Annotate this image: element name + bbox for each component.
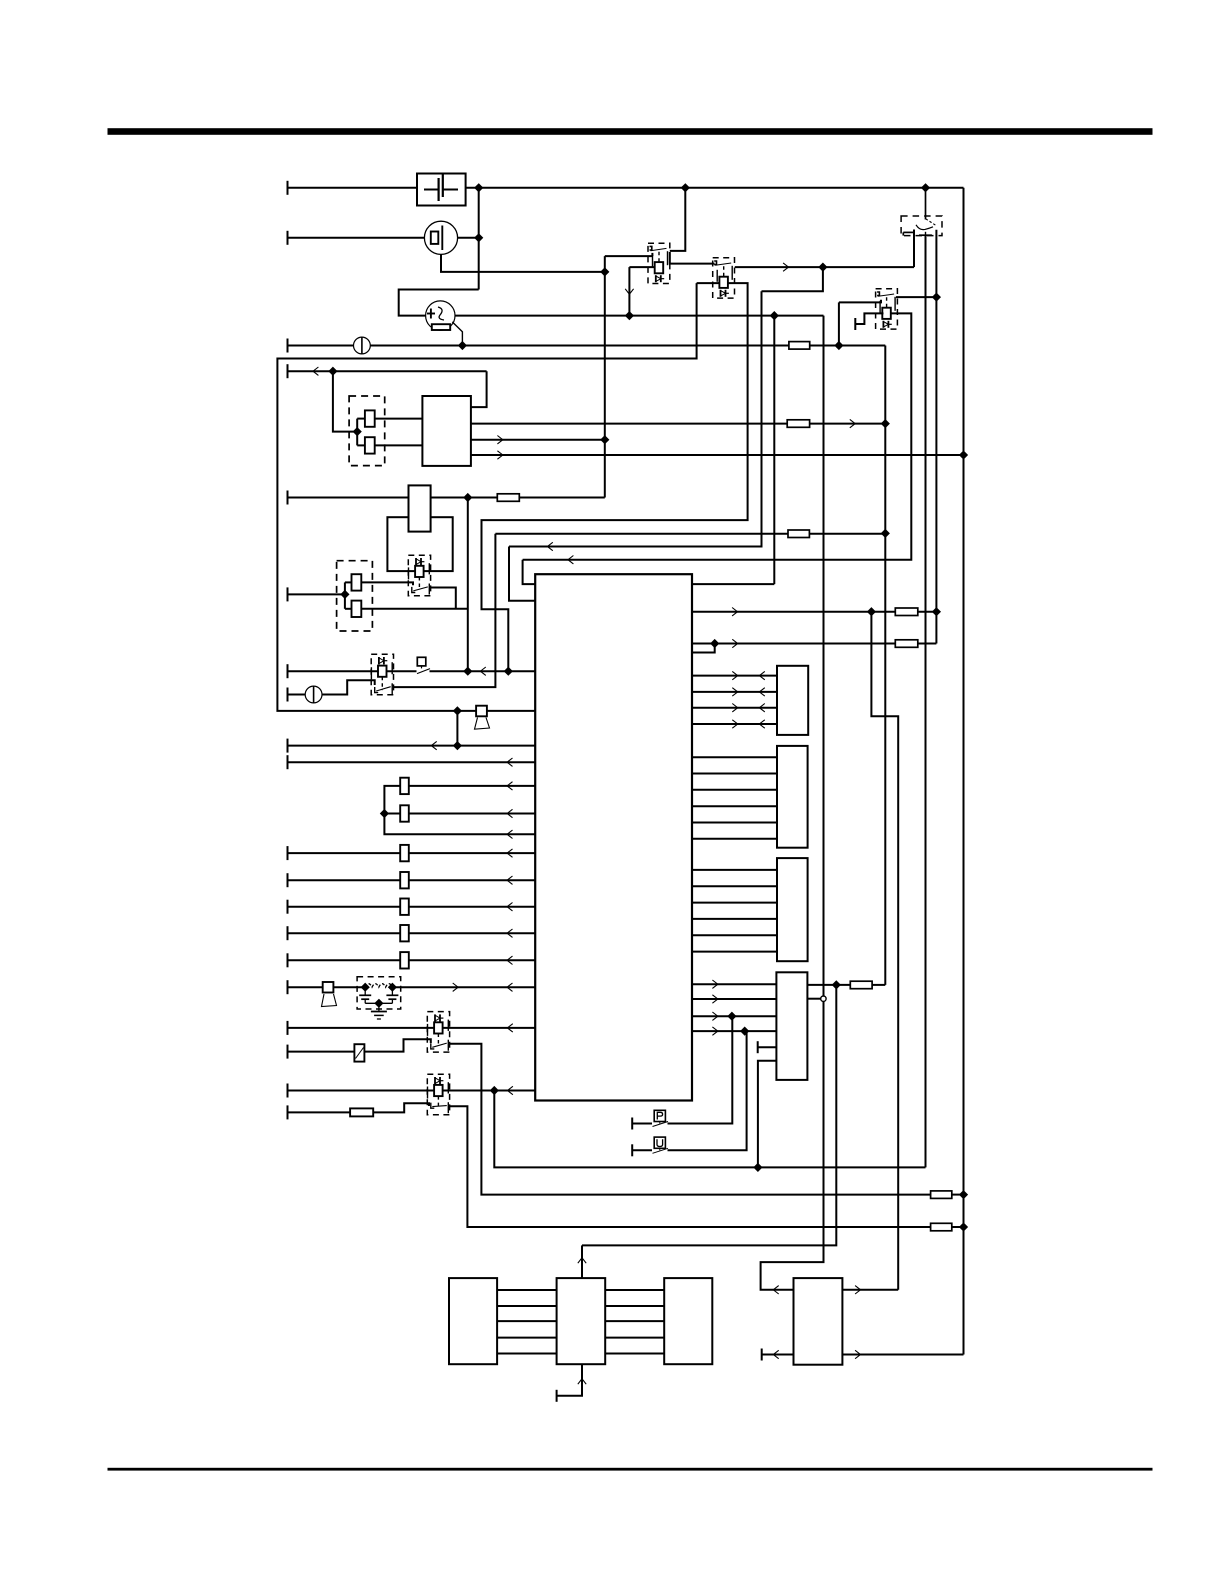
wire [409,932,535,934]
wire (K7 contact out) [449,1106,931,1227]
node J11 [881,530,889,538]
wire [288,593,345,595]
wire [605,1337,664,1339]
node J33 [741,1027,749,1035]
resistor R8 [400,872,409,888]
node T3 terminal [287,339,289,353]
node J35 [832,981,840,989]
node J19 [504,667,512,675]
wire [605,255,653,257]
node T18 terminal [287,1045,289,1059]
relay K5 (door lock cluster) [371,654,393,695]
wire (K2 coil) [697,282,720,284]
wire (right rail down) [963,188,965,1355]
wire [409,906,535,908]
wire [455,315,824,317]
node T8 terminal [287,688,289,702]
wire [810,345,886,347]
node J36 (plug circle) [821,996,826,1001]
wire [692,998,776,1000]
wire [497,1337,556,1339]
connector CN3 [777,746,808,848]
wire [692,773,777,775]
wire [288,879,401,881]
node T12 terminal [287,873,289,887]
wire [344,582,346,608]
wire (K1 coil) [629,266,655,268]
node J7 [770,312,778,320]
wire [288,670,417,672]
wire [288,1090,434,1092]
resistor R1 [365,410,375,426]
wire [842,1354,963,1356]
wire [442,1027,535,1029]
connector CN4 [777,858,808,961]
node J3 [922,184,930,192]
wire [918,643,937,645]
wire (IC fuse row 2) [692,643,895,645]
wire [605,1289,664,1291]
wire [807,998,821,1000]
wire [762,1354,794,1356]
wire [692,789,777,791]
wire [288,497,409,499]
relay K1 [648,243,670,283]
wire [855,313,883,324]
node T26 (stub terminal) [556,1390,558,1402]
wire [288,932,401,934]
wire [632,1123,652,1125]
connector CN8 [664,1278,712,1364]
wire [692,902,777,904]
wire [409,879,535,881]
wire [494,1091,925,1168]
relay K2 [713,258,735,298]
wire [871,612,898,1290]
wire [497,1305,556,1307]
node J18 [341,591,349,599]
wire [288,370,487,372]
node J25 [375,999,383,1007]
wire (motor return) [441,254,605,272]
wire [557,1364,582,1396]
door switch S1 (dashed box) [901,216,942,236]
node J6 [626,312,634,320]
wire [758,1046,777,1048]
thermistor pair TH1 (dashed box) [337,561,373,631]
wire [288,1111,351,1113]
wire [952,1226,964,1228]
wire (K6 contact out) [449,1044,931,1195]
wire [288,986,323,988]
wire (IC feedback loop) [692,583,774,585]
resistor R12 [350,1108,373,1116]
node J38 [933,293,941,301]
wire [838,302,840,345]
wire [364,1039,430,1051]
node J27 [490,1087,498,1095]
wire (triac gate) [452,322,462,346]
wire [670,252,715,264]
wire [872,984,885,986]
lamp/triac D1 (circle symbol) [426,301,455,330]
node T24 (stub terminal) [631,1144,633,1156]
node T5 terminal [287,491,289,505]
capacitor C2 [364,987,366,995]
node T4 terminal [287,364,289,378]
node J8 [459,342,467,350]
node T23 (stub terminal) [631,1118,633,1130]
wire [668,1031,747,1150]
node T14 terminal [287,926,289,940]
connector CN7 [557,1278,606,1364]
wire [409,959,535,961]
fuse F1 [497,494,519,502]
node T2 terminal [287,231,289,245]
wire [758,1061,777,1168]
node J30 [933,608,941,616]
relay K6 [427,1012,449,1053]
node J1 [475,184,483,192]
node J23 [361,983,369,991]
wire [918,611,937,613]
wire [375,418,423,420]
node T21 (stub terminal) [757,1041,759,1053]
wire (sub-board ground loop) [277,283,696,711]
resistor R7 [400,845,409,861]
wire [692,756,777,758]
wire [913,230,915,268]
node J26 [960,1191,968,1199]
resistor R4 [352,601,362,617]
node J2 [681,184,689,192]
resistor R5 [400,778,409,794]
relay K4 (transformer switch cluster) [408,555,430,596]
wire [605,1305,664,1307]
wire [431,497,498,499]
connector CN5 [776,972,807,1080]
wire [497,1289,556,1291]
relay K7 [427,1074,449,1115]
wire [692,918,777,920]
resistor R11 [400,952,409,968]
wire [356,419,358,446]
node J21 [454,742,462,750]
wire [430,670,536,672]
buzzer BZ1 [476,706,487,717]
wire [322,680,375,694]
node J4 [475,234,483,242]
wire [809,533,885,535]
wire [519,497,605,499]
fuse F8 [931,1191,952,1199]
capacitor C3 [391,987,393,995]
node T13 terminal [287,900,289,914]
wire [399,290,479,316]
connector CN2 [777,666,808,735]
wire [810,423,886,425]
wire [935,230,937,644]
wire [384,786,535,834]
wire (door line down) [925,236,927,1168]
wire [478,188,480,290]
wire [365,1002,392,1004]
wire [361,608,468,610]
node T20 terminal [287,1105,289,1119]
wire [497,1353,556,1355]
ground [378,1003,380,1011]
wire [605,1353,664,1355]
fuse F3 [787,420,809,428]
wire (driver out 2) [471,439,605,441]
wire [692,885,777,887]
transformer T100 primary [409,485,431,531]
wire [692,838,777,840]
wire (K3 in) [839,300,881,303]
wire (driver out 1) [471,423,787,425]
wire [456,711,458,746]
wire [288,1051,355,1053]
capacitor C1 (boxed) [417,174,466,206]
wire [692,707,777,709]
wire [361,582,414,585]
wire [807,984,850,986]
wire [370,345,789,347]
node T9 terminal [287,739,289,753]
wire [952,1194,964,1196]
wire [668,1016,733,1123]
resistor R10 [400,925,409,941]
transformer T100 body [387,517,452,571]
wire [581,1245,583,1278]
relay K3 [876,289,898,329]
wire [431,588,456,609]
node J24 [389,983,397,991]
wire [670,188,686,251]
wire [692,805,777,807]
wire [692,869,777,871]
node T25 (stub terminal) [854,318,856,330]
node T17 terminal [287,1021,289,1035]
wire [288,694,306,696]
wire [392,986,535,988]
wire (relay K2 aux loop) [482,283,748,671]
wire (to right bus) [884,346,886,985]
fuse F2 [789,342,810,350]
inductor L1 [365,984,392,988]
node J15 [601,436,609,444]
node J17 [464,494,472,502]
node J32 [728,1012,736,1020]
wire [288,745,536,747]
ic U1 (main microcontroller) [535,574,692,1100]
node J37 [819,263,827,271]
wire (relay K3 coil line) [523,313,912,559]
wire [761,1001,824,1289]
wire (K3 out) [896,296,936,298]
node J31 [711,640,719,648]
wire [692,1030,776,1032]
wire [288,345,354,347]
wire [692,983,776,985]
wire (transformer tap bus) [467,498,469,672]
node T6 terminal [287,587,289,601]
wire [288,959,401,961]
wire [692,951,777,953]
node T1 (AC line input terminal) [287,181,289,195]
ic U2 (driver) [422,396,471,466]
node J14 [353,428,361,436]
wire (top rail to far right) [466,187,964,189]
wire [692,723,777,725]
wire [409,852,535,854]
node T16 terminal [287,980,289,994]
resistor R2 [365,437,375,453]
wire [632,1149,652,1151]
wire [692,822,777,824]
wire [471,371,487,407]
node J9 [835,342,843,350]
wire (driver out 3) [471,454,964,456]
opto-isolator pair PC1 (dashed box) [349,396,385,466]
line filter FL1 (dashed box) [357,977,401,1009]
wire (live bus) [823,316,825,996]
fuse F0 (circle symbol) [354,337,371,354]
level switch L1 [654,1137,665,1148]
wire [692,644,715,653]
node T11 terminal [287,846,289,860]
node T10 terminal [287,755,289,769]
wire [692,934,777,936]
wire [605,1320,664,1322]
wire [409,813,535,815]
node J10 [881,420,889,428]
motor M1 (circle symbol) [424,221,457,254]
pressure switch P1 [654,1110,665,1121]
wire [288,906,401,908]
wire [762,267,823,291]
wire [458,237,479,239]
wire [393,534,495,687]
wire [497,1320,556,1322]
varistor RV1 [354,1044,364,1061]
node J34 [754,1164,762,1172]
wire [288,237,425,239]
wire [288,761,536,763]
node J20 [464,667,472,675]
wire [692,675,777,677]
node T22 (stub terminal) [761,1349,763,1361]
wire [409,785,535,787]
buzzer BZ2 [323,982,334,993]
wire [288,1027,434,1029]
node J16 [960,451,968,459]
wire [842,1289,898,1291]
node J28 [960,1223,968,1231]
wire [373,1103,429,1112]
fuse F6 [895,640,918,648]
wire [384,813,400,815]
wire [288,187,418,189]
wire (door switch sense) [509,291,762,546]
node T15 terminal [287,953,289,967]
fuse F0b (circle symbol) [305,686,322,703]
fuse F5 [895,608,918,616]
wire (IC fuse row 1) [692,611,895,613]
wire [442,1090,535,1092]
wire [692,691,777,693]
wire (K2 contact out) [735,266,914,268]
node J5 [601,268,609,276]
wire [334,986,366,988]
wire [582,985,836,1246]
node J29 [868,608,876,616]
resistor R3 [352,574,362,590]
resistor R9 [400,899,409,915]
fuse F7 [850,981,872,989]
node J22 [381,810,389,818]
node J12 [329,367,337,375]
wire [692,1015,776,1017]
connector CN9 [794,1278,843,1365]
wire (K1 common bus) [604,256,606,497]
resistor R6 [400,805,409,821]
wire (mains sense) [495,533,788,535]
wire [288,852,401,854]
connector CN6 [449,1278,497,1364]
node J13 [454,707,462,715]
node T7 terminal [287,664,289,678]
fuse F9 [931,1223,952,1231]
wire [333,371,357,431]
fuse F4 [788,530,809,538]
thermal switch SW1 [417,657,426,666]
node T19 terminal [287,1084,289,1098]
